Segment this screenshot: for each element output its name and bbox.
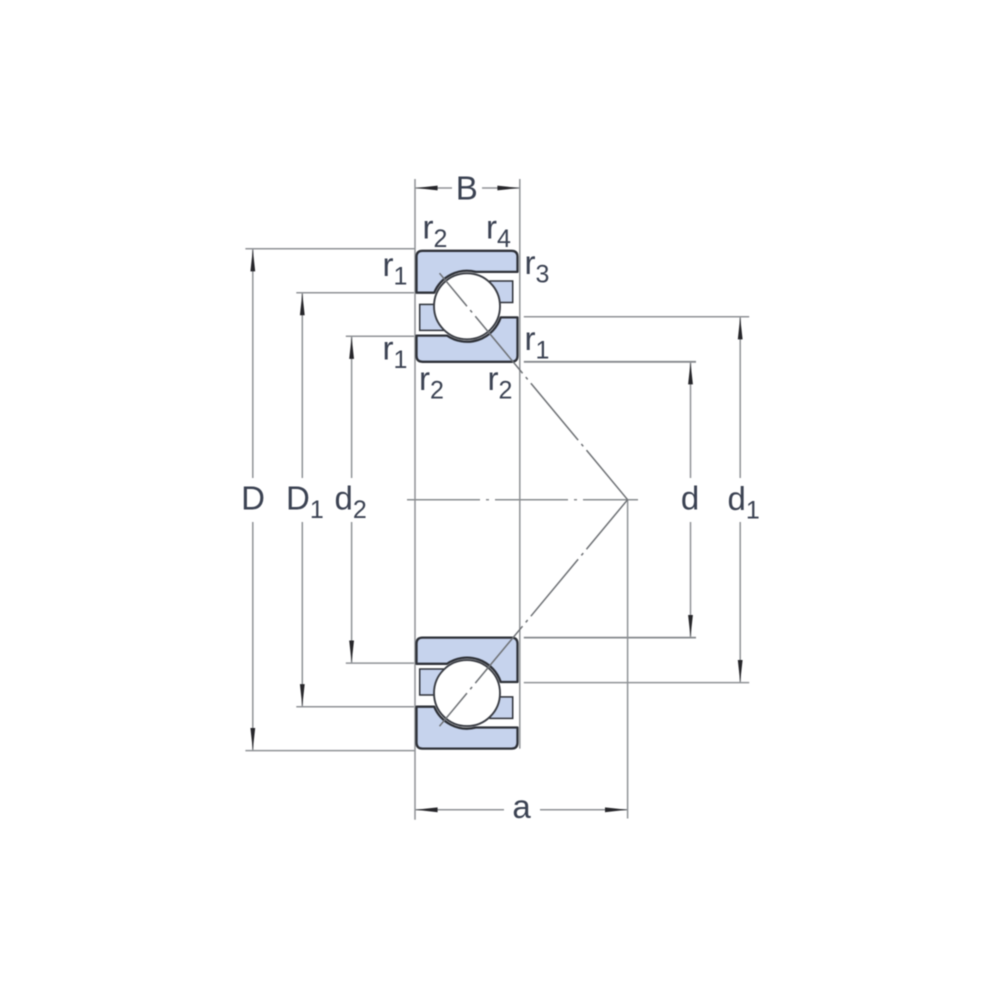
extension line d2 top (346, 335, 414, 337)
contact angle diagonal top (chain line) (440, 273, 628, 500)
arrow D bottom (250, 728, 255, 750)
extension line right vertical (B right) (519, 179, 521, 749)
extension line D1 top (296, 292, 414, 294)
arrow d2 bottom (349, 641, 354, 663)
label background d2 (332, 478, 369, 522)
extension line D top (245, 248, 415, 250)
arrow B left (416, 186, 438, 191)
arrow a left (416, 807, 438, 812)
extension line d1 top (524, 316, 749, 318)
svg-text:D: D (241, 480, 265, 517)
dimension line B (415, 187, 520, 189)
extension line d1 bottom (524, 682, 749, 684)
arrow d bottom (688, 615, 693, 637)
svg-text:a: a (512, 788, 531, 825)
arrow D1 bottom (300, 684, 305, 706)
svg-text:B: B (456, 170, 478, 207)
svg-text:d: d (681, 480, 699, 517)
cage pocket right (490, 281, 513, 303)
arrow d2 top (349, 337, 354, 359)
extension line d top (524, 361, 696, 363)
extension line d bottom (524, 637, 696, 639)
label background a (504, 790, 540, 826)
extension line D bottom (245, 750, 415, 752)
contact angle diagonal bottom (chain line) (440, 500, 628, 727)
extension line left vertical (B left / a left) (414, 179, 416, 820)
label background d1 (724, 478, 757, 522)
dimension line a (415, 809, 628, 811)
label background d (678, 478, 703, 522)
dimension line D1 (301, 293, 303, 707)
arrow d top (688, 362, 693, 384)
bearing cross-section bottom (mirror) (417, 638, 518, 749)
contact angle apex vertical line / a right extension (627, 500, 629, 819)
dimension line d2 (351, 337, 353, 663)
extension line d2 bottom (346, 662, 414, 664)
dimension line d (690, 362, 692, 637)
label background B (452, 172, 482, 202)
ball (434, 273, 500, 339)
inner ring top (417, 317, 518, 361)
outer ring top (417, 251, 518, 293)
dimension line d1 (739, 317, 741, 682)
arrow D1 top (300, 293, 305, 315)
arrow a right (605, 807, 627, 812)
cage pocket left (420, 304, 444, 330)
extension line D1 bottom (296, 706, 414, 708)
arrow D top (250, 249, 255, 271)
arrow d1 top (738, 317, 743, 339)
label background D1 (284, 478, 321, 522)
bearing cross-section top (417, 251, 518, 362)
arrow d1 bottom (738, 660, 743, 682)
arrow B right (497, 186, 519, 191)
dimension line D (252, 249, 254, 750)
label background D (240, 478, 266, 522)
centre line horizontal (dash-dot) (407, 499, 638, 501)
